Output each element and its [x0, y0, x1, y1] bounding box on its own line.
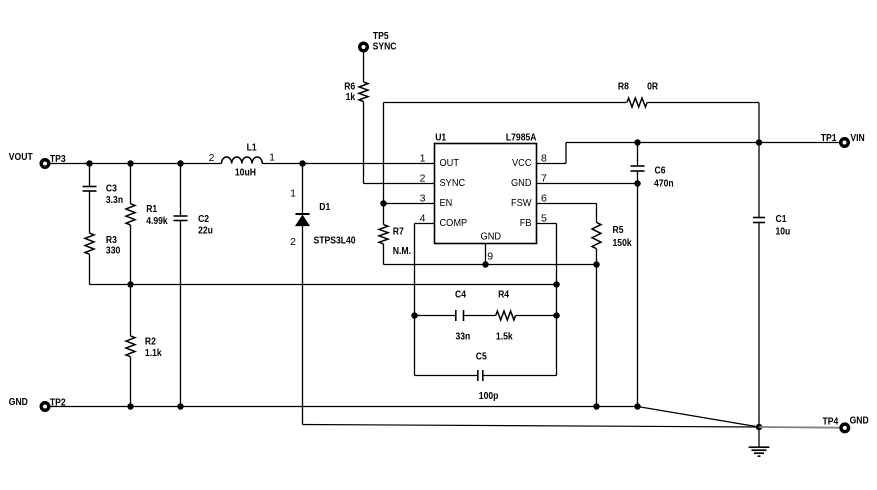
wire GND pin7 [537, 183, 638, 185]
wire VCC pin [537, 143, 567, 164]
junction feedback divider tap [127, 281, 134, 288]
pin 1 of D1 [290, 187, 296, 199]
resistor R1 [126, 164, 168, 285]
capacitor C6 [631, 143, 674, 407]
capacitor C2 [174, 164, 213, 407]
op-amp U1 body [435, 132, 537, 244]
node GND right [850, 415, 869, 427]
wire bottom ground return [303, 425, 760, 428]
junction FB node [553, 281, 560, 288]
svg-text:1: 1 [269, 152, 275, 164]
pin 2 of D1 [290, 236, 296, 248]
wire ground net below U1 [384, 264, 597, 266]
pin 8 of U1 [541, 153, 547, 165]
pin 2 of L1 [209, 152, 215, 164]
pin name COMP [440, 217, 468, 229]
svg-text:10uH: 10uH [235, 166, 256, 178]
wire R6 to SYNC pin [364, 102, 435, 184]
svg-text:GND: GND [511, 177, 532, 189]
svg-text:R7: R7 [393, 225, 404, 237]
junction C4 row right [553, 312, 560, 319]
svg-text:COMP: COMP [440, 217, 468, 229]
node VIN [850, 132, 864, 144]
junction GND rail at R5 [593, 403, 600, 410]
svg-text:7: 7 [541, 173, 547, 185]
wire to TP4 [759, 426, 839, 429]
wire R5 to GND rail [596, 265, 598, 407]
junction on VOUT rail at C3 [86, 160, 93, 167]
wire GND rail [50, 406, 637, 408]
svg-text:VCC: VCC [512, 157, 532, 169]
resistor R6 [344, 81, 368, 104]
svg-text:R8: R8 [618, 80, 629, 92]
wire EN vertical to top wire [383, 103, 385, 204]
svg-text:C5: C5 [476, 350, 487, 362]
svg-text:FB: FB [520, 217, 532, 229]
svg-text:GND: GND [9, 396, 28, 408]
svg-text:1k: 1k [346, 91, 356, 103]
wire switch node L1 to OUT pin [262, 163, 434, 165]
capacitor C3 [83, 164, 124, 234]
svg-text:1: 1 [290, 187, 296, 199]
pin 1 of L1 [269, 152, 275, 164]
svg-text:1.1k: 1.1k [145, 347, 162, 359]
resistor R4 [496, 289, 557, 343]
svg-text:150k: 150k [613, 237, 632, 249]
test point TP2 [40, 396, 66, 412]
wire diagonal ground [638, 407, 760, 428]
pin 6 of U1 [541, 193, 547, 205]
svg-text:VIN: VIN [850, 132, 864, 144]
diode D1 [296, 164, 356, 425]
svg-text:10u: 10u [776, 226, 791, 238]
pin 2 of U1 [420, 173, 426, 185]
svg-text:4: 4 [420, 213, 426, 225]
junction GND rail at R2 [127, 403, 134, 410]
test point TP4 [823, 415, 851, 433]
svg-text:2: 2 [420, 173, 426, 185]
pin 3 of U1 [420, 193, 426, 205]
svg-text:N.M.: N.M. [393, 245, 411, 257]
pin name SYNC [440, 177, 466, 189]
svg-text:D1: D1 [319, 201, 330, 213]
svg-text:GND: GND [481, 230, 502, 242]
resistor R7 [379, 204, 411, 265]
pin name FSW [511, 197, 532, 209]
node SYNC [373, 41, 397, 53]
svg-text:0R: 0R [647, 80, 658, 92]
wire FSW pin [537, 204, 597, 223]
resistor R2 [126, 285, 162, 407]
inductor L1 [222, 141, 263, 178]
svg-text:L1: L1 [247, 141, 257, 153]
svg-text:C2: C2 [198, 213, 209, 225]
wire COMP pin [415, 224, 435, 376]
svg-text:TP1: TP1 [821, 132, 837, 144]
svg-text:VOUT: VOUT [9, 151, 33, 163]
capacitor C5 [415, 350, 557, 402]
wire EN pin [384, 203, 435, 205]
svg-text:8: 8 [541, 153, 547, 165]
wire top to R8 [384, 102, 627, 104]
svg-text:C6: C6 [655, 164, 666, 176]
junction C4 row left [411, 312, 418, 319]
wire R8 to VIN rail [647, 103, 759, 143]
junction switch node at D1 [299, 160, 306, 167]
junction main ground [756, 424, 763, 431]
svg-text:4.99k: 4.99k [146, 215, 168, 227]
wire TP5 to R6 [363, 53, 365, 83]
svg-text:1: 1 [420, 153, 426, 165]
pin name VCC [512, 157, 532, 169]
svg-text:SYNC: SYNC [373, 41, 397, 53]
svg-text:U1: U1 [435, 132, 446, 144]
test point TP3 [40, 153, 66, 169]
svg-text:3.3n: 3.3n [106, 194, 123, 206]
svg-text:2: 2 [209, 152, 215, 164]
svg-text:5: 5 [541, 213, 547, 225]
pin 7 of U1 [541, 173, 547, 185]
resistor R3 [85, 233, 120, 284]
svg-text:33n: 33n [456, 330, 471, 342]
svg-text:STPS3L40: STPS3L40 [314, 234, 356, 246]
pin 9 of U1 [486, 244, 494, 265]
pin name OUT [440, 157, 460, 169]
svg-text:R1: R1 [146, 203, 157, 215]
node GND left [9, 396, 28, 408]
svg-text:FSW: FSW [511, 197, 532, 209]
svg-text:330: 330 [106, 245, 121, 257]
test point TP5 [358, 30, 389, 52]
wire VIN rail [566, 142, 759, 144]
junction on VOUT rail at C2 [177, 160, 184, 167]
junction R5 bottom [593, 261, 600, 268]
junction VIN rail at C1 [756, 139, 763, 146]
svg-text:R2: R2 [145, 336, 156, 348]
svg-text:OUT: OUT [440, 157, 460, 169]
svg-text:C4: C4 [455, 289, 466, 301]
wire to TP1 [759, 142, 839, 144]
ground [749, 427, 770, 456]
svg-text:C1: C1 [776, 213, 787, 225]
pin name FB [520, 217, 532, 229]
pin 4 of U1 [420, 213, 426, 225]
svg-text:6: 6 [541, 193, 547, 205]
svg-text:100p: 100p [479, 390, 499, 402]
node VOUT [9, 151, 33, 163]
wire feedback node [90, 284, 557, 286]
capacitor C4 [415, 289, 496, 343]
pin name EN [440, 197, 453, 209]
resistor R8 [618, 80, 659, 107]
junction pin7 at C6 line [634, 180, 641, 187]
pin name GND pad [481, 230, 502, 242]
junction pin9 ground [482, 261, 489, 268]
svg-text:TP4: TP4 [823, 415, 839, 427]
svg-text:L7985A: L7985A [506, 132, 537, 144]
pin 5 of U1 [541, 213, 547, 225]
junction EN / R7 [380, 200, 387, 207]
junction VIN rail at C6 [634, 139, 641, 146]
pin 1 of U1 [420, 153, 426, 165]
svg-text:2: 2 [290, 236, 296, 248]
svg-text:SYNC: SYNC [440, 177, 466, 189]
svg-text:GND: GND [850, 415, 869, 427]
junction GND rail at C2 [177, 403, 184, 410]
junction GND rail end [634, 403, 641, 410]
svg-text:22u: 22u [198, 225, 213, 237]
svg-text:R4: R4 [498, 289, 509, 301]
svg-text:C3: C3 [106, 182, 117, 194]
svg-text:EN: EN [440, 197, 453, 209]
svg-text:470n: 470n [654, 178, 674, 190]
svg-text:9: 9 [487, 251, 493, 263]
svg-text:3: 3 [420, 193, 426, 205]
svg-text:R5: R5 [613, 224, 624, 236]
test point TP1 [821, 132, 850, 148]
wire VOUT rail from TP3 to L1 [49, 163, 221, 165]
wire FB pin [537, 224, 557, 376]
resistor R5 [592, 222, 632, 264]
pin name GND [511, 177, 532, 189]
capacitor C1 [753, 143, 790, 428]
svg-text:1.5k: 1.5k [496, 331, 513, 343]
junction on VOUT rail at R1 [127, 160, 134, 167]
